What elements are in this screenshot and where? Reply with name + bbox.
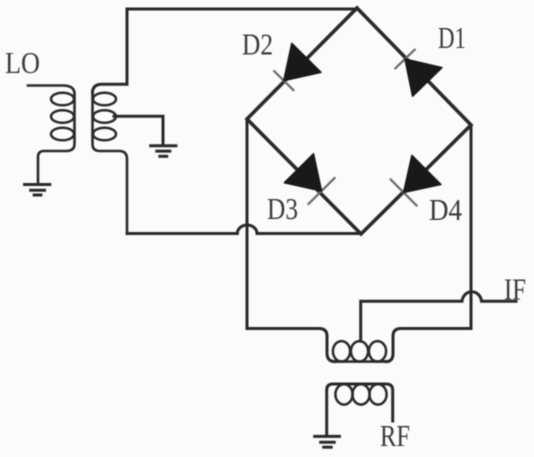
- svg-text:RF: RF: [380, 418, 410, 453]
- diode D1 triangle: [405, 59, 442, 96]
- svg-text:IF: IF: [504, 271, 526, 306]
- diode D2 cathode tick: [274, 70, 295, 90]
- transformer T1 secondary winding (LO right coil): [93, 91, 128, 234]
- wire LO bottom rail to diamond bottom vertex with jump over left vertical: [127, 225, 361, 234]
- ground G2 (T1 center tap): [151, 146, 176, 157]
- wire diamond right vertex down to RF primary right lead: [386, 125, 471, 362]
- wire center tap of T1 secondary to ground: [114, 116, 163, 144]
- svg-text:D2: D2: [242, 26, 273, 61]
- transformer T1 primary winding (LO left coil) with LO lead: [28, 86, 75, 184]
- diode D4 cathode tick: [390, 179, 417, 207]
- ground G1 (T1 primary): [25, 185, 50, 196]
- transformer T2 secondary winding (RF bottom coil): [327, 384, 393, 436]
- diode D4 triangle: [404, 155, 441, 192]
- svg-text:D3: D3: [267, 191, 298, 226]
- svg-text:D4: D4: [429, 192, 462, 227]
- transformer T2 primary winding (RF top coil): [334, 360, 388, 363]
- diode D1 cathode tick: [395, 49, 416, 69]
- wire diamond left vertex down to RF primary left lead: [247, 119, 335, 362]
- wire top rail from LO secondary to diamond top vertex: [93, 9, 358, 93]
- svg-text:D1: D1: [438, 20, 466, 55]
- diode D3 triangle: [284, 154, 321, 191]
- diode D2 triangle: [284, 43, 321, 80]
- svg-text:LO: LO: [5, 45, 40, 80]
- diode D3 cathode tick: [308, 177, 336, 204]
- wire IF line from T2 center tap with jump over right vertical: [361, 292, 516, 342]
- ground G3 (T2 secondary): [315, 436, 340, 447]
- diode ring diamond outline: [247, 8, 471, 234]
